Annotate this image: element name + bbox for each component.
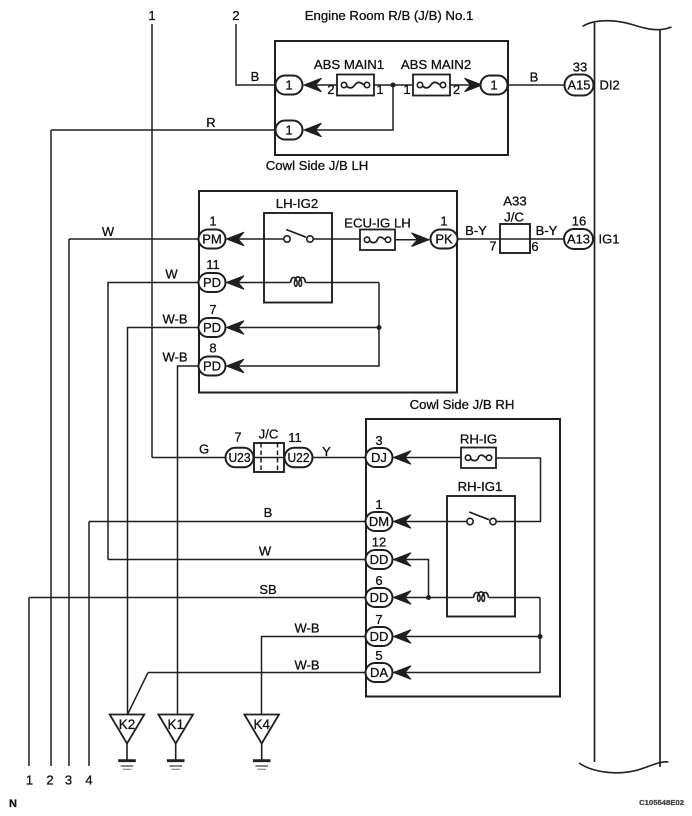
svg-text:K2: K2 (119, 717, 136, 732)
svg-text:1: 1 (26, 773, 33, 788)
svg-text:DA: DA (370, 665, 388, 680)
svg-text:PM: PM (202, 232, 222, 247)
svg-text:DJ: DJ (371, 450, 387, 465)
svg-text:RH-IG1: RH-IG1 (458, 479, 503, 494)
svg-text:ECU-IG LH: ECU-IG LH (344, 216, 411, 231)
svg-text:PD: PD (203, 320, 221, 335)
svg-text:33: 33 (573, 60, 587, 75)
svg-text:W: W (165, 267, 178, 282)
svg-text:LH-IG2: LH-IG2 (276, 196, 319, 211)
svg-text:ABS MAIN1: ABS MAIN1 (314, 57, 384, 72)
svg-text:Y: Y (322, 444, 331, 459)
svg-text:3: 3 (375, 433, 382, 448)
svg-text:W: W (259, 544, 272, 559)
svg-text:PD: PD (203, 275, 221, 290)
svg-text:6: 6 (531, 239, 538, 254)
svg-text:7: 7 (234, 430, 241, 445)
svg-text:B-Y: B-Y (536, 223, 558, 238)
svg-text:1: 1 (440, 214, 447, 229)
svg-text:U23: U23 (229, 450, 251, 465)
svg-text:PK: PK (435, 232, 453, 247)
svg-text:A33: A33 (503, 194, 526, 209)
svg-text:2: 2 (46, 773, 53, 788)
svg-text:6: 6 (375, 573, 382, 588)
svg-text:12: 12 (372, 535, 386, 550)
svg-text:DM: DM (369, 514, 389, 529)
svg-text:J/C: J/C (259, 427, 279, 442)
svg-text:K4: K4 (253, 717, 270, 732)
svg-text:1: 1 (209, 214, 216, 229)
svg-text:DD: DD (370, 552, 389, 567)
svg-text:C105548E02: C105548E02 (639, 798, 684, 807)
svg-text:3: 3 (65, 773, 72, 788)
svg-text:R: R (206, 115, 215, 130)
svg-text:7: 7 (209, 302, 216, 317)
svg-text:PD: PD (203, 359, 221, 374)
svg-text:W-B: W-B (162, 350, 187, 365)
svg-text:7: 7 (489, 239, 496, 254)
svg-text:11: 11 (206, 257, 220, 272)
svg-text:2: 2 (327, 82, 334, 97)
svg-text:8: 8 (209, 341, 216, 356)
svg-text:7: 7 (375, 612, 382, 627)
svg-text:U22: U22 (288, 450, 310, 465)
svg-text:DD: DD (370, 629, 389, 644)
svg-text:SB: SB (259, 582, 276, 597)
svg-text:N: N (9, 798, 17, 810)
svg-text:G: G (199, 442, 209, 457)
svg-text:RH-IG: RH-IG (460, 432, 497, 447)
svg-text:11: 11 (288, 430, 302, 445)
svg-text:16: 16 (572, 214, 586, 229)
svg-text:Cowl Side J/B LH: Cowl Side J/B LH (266, 158, 369, 173)
svg-text:B: B (530, 70, 539, 85)
svg-text:1: 1 (148, 8, 155, 23)
svg-text:IG1: IG1 (599, 232, 620, 247)
svg-text:DD: DD (370, 590, 389, 605)
svg-text:W-B: W-B (294, 621, 319, 636)
svg-text:W-B: W-B (162, 312, 187, 327)
svg-text:B: B (264, 505, 273, 520)
svg-text:A15: A15 (568, 78, 591, 93)
svg-text:Engine Room R/B (J/B) No.1: Engine Room R/B (J/B) No.1 (305, 8, 474, 23)
svg-text:A13: A13 (567, 232, 590, 247)
svg-text:1: 1 (285, 123, 292, 138)
svg-text:Cowl Side J/B RH: Cowl Side J/B RH (410, 397, 515, 412)
svg-text:J/C: J/C (504, 210, 524, 225)
svg-text:1: 1 (375, 497, 382, 512)
svg-text:W-B: W-B (294, 658, 319, 673)
svg-text:1: 1 (285, 78, 292, 93)
svg-text:DI2: DI2 (600, 78, 620, 93)
svg-text:B-Y: B-Y (465, 223, 487, 238)
svg-text:ABS MAIN2: ABS MAIN2 (401, 57, 471, 72)
svg-text:1: 1 (403, 82, 410, 97)
svg-text:2: 2 (232, 8, 239, 23)
svg-text:W: W (102, 224, 115, 239)
svg-text:5: 5 (375, 648, 382, 663)
svg-text:K1: K1 (167, 717, 184, 732)
svg-text:B: B (251, 69, 260, 84)
svg-text:1: 1 (490, 78, 497, 93)
svg-text:4: 4 (85, 773, 92, 788)
